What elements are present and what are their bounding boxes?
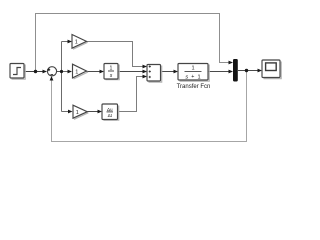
arrow into mux input 1: [229, 61, 234, 65]
wire: derivative output up to Add input 3: [119, 77, 144, 112]
svg-text:s: s: [110, 73, 113, 79]
derivative block du/dt: [102, 104, 119, 120]
gain block top (triangle, 1): [72, 35, 88, 50]
arrow into integrator: [100, 70, 105, 74]
gain block bottom (triangle, 1): [73, 105, 88, 119]
svg-text:Δu: Δu: [107, 107, 113, 112]
svg-text:Transfer Fcn: Transfer Fcn: [177, 84, 211, 90]
wire: sum output to branch point: [57, 71, 62, 73]
transfer fcn block 1/(s+1): [178, 64, 209, 82]
wire: top gain output to Add input 1: [87, 42, 144, 67]
node: junction dot on scope wire: [245, 69, 248, 72]
wire: Add output to Transfer Fcn: [161, 71, 174, 73]
arrow into Transfer Fcn: [174, 70, 179, 74]
gain block middle (triangle, 1): [73, 64, 89, 79]
svg-text:1: 1: [110, 65, 113, 71]
arrow into Add input 1: [143, 65, 148, 69]
arrow into Add input 3: [143, 75, 148, 79]
wire: feedback from scope wire down, across bottom, up into sum minus input: [52, 71, 247, 142]
svg-text:+: +: [191, 74, 194, 80]
svg-text:Δt: Δt: [108, 113, 113, 118]
wire: Transfer Fcn output to mux input 2: [209, 71, 230, 73]
arrow into middle gain: [68, 70, 73, 74]
arrow into derivative: [98, 110, 103, 114]
arrow into sum from below (feedback): [50, 76, 54, 81]
svg-text:1: 1: [75, 69, 78, 75]
integrator block 1/s: [104, 64, 119, 80]
arrow into bottom gain: [68, 110, 73, 114]
wire: bottom gain output to derivative: [88, 111, 99, 113]
node: junction dot at sum output branch: [60, 70, 63, 73]
sum block (circle with + and -): [47, 67, 56, 76]
svg-text:1: 1: [76, 110, 79, 116]
arrow into mux input 2: [229, 70, 234, 74]
node: junction dot on step wire: [34, 70, 37, 73]
wire: branch vertical feeding three gains: [62, 42, 69, 112]
add block (3 inputs, + + +): [147, 65, 162, 83]
wire: integrator output to Add input 2: [119, 71, 144, 73]
step source block: [10, 64, 25, 80]
wire: branch from step wire up, across top, down to mux input 1: [36, 14, 230, 72]
arrow into scope: [258, 69, 263, 73]
svg-text:s: s: [185, 74, 188, 80]
wire: middle gain output to integrator: [87, 71, 101, 73]
scope block: [262, 60, 281, 79]
wire: step output to sum: [24, 71, 44, 73]
svg-text:1: 1: [197, 74, 200, 80]
arrow into Add input 2: [143, 70, 148, 74]
mux block (black bar): [233, 59, 238, 82]
svg-text:1: 1: [191, 66, 194, 72]
wire: mux output to scope: [238, 70, 258, 72]
svg-text:1: 1: [75, 40, 78, 46]
arrow into top gain: [68, 40, 73, 44]
arrow into sum: [43, 70, 48, 74]
